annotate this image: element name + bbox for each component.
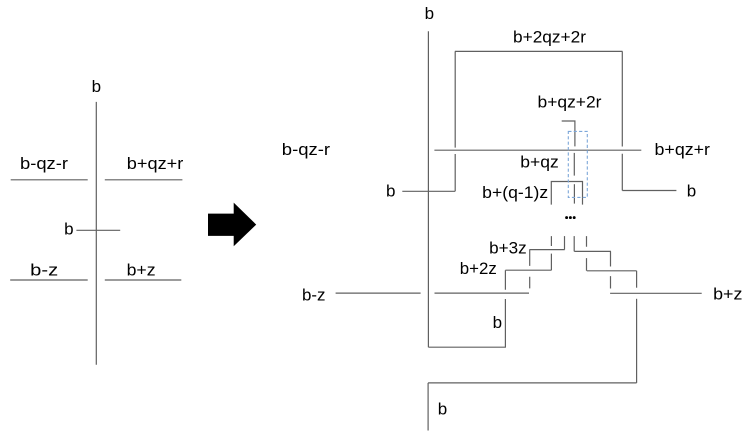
right diagram main vertical b	[427, 31, 429, 347]
bottom horizontal b	[428, 382, 636, 384]
big black arrow	[208, 203, 256, 247]
big rect top b+2qz+2r	[455, 50, 623, 52]
svg-text:b: b	[493, 313, 502, 332]
step vertical at 636 upper	[636, 271, 638, 288]
descender vertical at 636	[636, 299, 638, 383]
left b tick wire	[402, 190, 455, 192]
step tick inner left	[564, 236, 566, 250]
right b wire	[622, 190, 676, 192]
tick line b left-diagram	[76, 229, 120, 231]
svg-text:b: b	[64, 219, 73, 238]
svg-text:b-qz-r: b-qz-r	[282, 140, 331, 159]
line b+z right	[610, 292, 702, 294]
central vertical middle segment	[573, 153, 575, 176]
line b+z left	[105, 279, 182, 281]
step horizontal b+2z	[505, 269, 551, 271]
svg-text:b+2qz+2r: b+2qz+2r	[513, 28, 586, 47]
line b+qz+r left-diagram	[105, 179, 183, 181]
step vertical at 529	[529, 250, 531, 289]
svg-text:b+z: b+z	[127, 260, 156, 279]
svg-text:b+qz+2r: b+qz+2r	[538, 92, 602, 111]
svg-text:b-z: b-z	[30, 260, 58, 279]
svg-text:b+3z: b+3z	[489, 238, 527, 257]
inverted-L b+qz+2r	[562, 121, 575, 146]
svg-text:b+qz+r: b+qz+r	[655, 140, 711, 159]
svg-text:b: b	[425, 4, 434, 23]
svg-text:b-z: b-z	[302, 286, 326, 305]
svg-text:b-qz-r: b-qz-r	[20, 154, 68, 173]
line b-z right-diagram	[336, 292, 421, 294]
step tick inner right	[573, 236, 575, 251]
step vertical at 610	[610, 251, 612, 288]
big rect left vertical	[454, 51, 456, 191]
big rect right vertical	[621, 51, 623, 190]
svg-text:b+z: b+z	[713, 285, 742, 304]
bottom-left U horizontal b	[428, 346, 506, 348]
central vertical lower segment	[573, 184, 575, 203]
svg-text:b+(q-1)z: b+(q-1)z	[482, 183, 548, 202]
step vertical at 505	[504, 270, 506, 347]
svg-text:b: b	[438, 400, 447, 419]
svg-text:b: b	[92, 77, 101, 96]
line b-z left	[10, 279, 88, 281]
ellipsis dots	[565, 216, 576, 219]
long horizontal b-qz-r / b+qz+r	[434, 149, 641, 151]
svg-text:b+qz+r: b+qz+r	[127, 154, 184, 173]
svg-text:b: b	[386, 182, 395, 201]
step tick outer left	[550, 236, 552, 270]
bottom vertical b	[427, 383, 429, 431]
step horizontal b+3z	[529, 249, 564, 251]
svg-text:b+qz: b+qz	[520, 152, 559, 171]
step tick outer right	[586, 236, 588, 271]
step horizontal right b+2z level	[587, 270, 637, 272]
line b-qz-r left	[11, 179, 88, 181]
svg-text:b: b	[687, 182, 696, 201]
svg-text:b+2z: b+2z	[460, 259, 497, 278]
dashed highlight box	[568, 131, 587, 197]
step horizontal right b+3z level	[574, 250, 611, 252]
left diagram vertical line b	[95, 102, 97, 365]
b-z continuation line	[435, 292, 530, 294]
bracket b+(q-1)z	[551, 182, 582, 205]
